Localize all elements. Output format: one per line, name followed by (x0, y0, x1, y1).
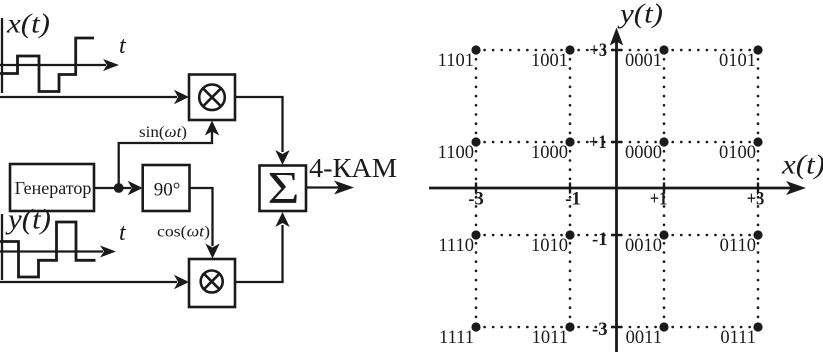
x(t) source time axis (0, 64, 106, 66)
cos wire: 90 box right, down into X2 (190, 188, 213, 246)
x(t) waveform (0, 38, 94, 92)
multiplier X2 circle (201, 271, 223, 293)
svg-text:1010: 1010 (531, 236, 568, 256)
point 0001 (659, 45, 668, 54)
svg-text:90°: 90° (154, 180, 181, 201)
svg-text:Σ: Σ (268, 162, 300, 213)
90 degree box (143, 165, 190, 211)
axis tick labels (468, 40, 764, 340)
svg-text:+3: +3 (747, 189, 765, 210)
svg-text:0110: 0110 (720, 236, 756, 256)
svg-text:+1: +1 (650, 189, 668, 210)
point 1001 (565, 45, 574, 54)
dotted column x=-3 (475, 50, 478, 327)
svg-text:+3: +3 (590, 40, 608, 61)
svg-text:-3: -3 (468, 189, 484, 210)
output arrowhead (334, 181, 354, 195)
svg-text:1001: 1001 (531, 51, 568, 71)
summator box (260, 166, 307, 212)
point 1100 (471, 137, 480, 146)
wire y(t) to multiplier X2 (0, 281, 177, 283)
point 1111 (471, 322, 480, 331)
multiplier X1 box (189, 75, 235, 121)
point 1011 (565, 322, 574, 331)
dotted row y=+3 (476, 49, 758, 52)
svg-text:x(t): x(t) (781, 150, 823, 180)
arrowhead into multiplier X2 (174, 275, 189, 289)
x axis ticks (475, 183, 477, 194)
arrowhead into multiplier X1 (174, 90, 189, 104)
point 0101 (753, 45, 762, 54)
x(t) source vertical axis (1, 18, 3, 93)
point 1101 (471, 45, 480, 54)
y(t) time axis arrowhead (100, 246, 116, 258)
point 1000 (565, 137, 574, 146)
point 1010 (565, 230, 574, 239)
svg-text:-1: -1 (565, 189, 581, 210)
svg-text:0100: 0100 (719, 143, 756, 163)
wire X1 to summator (235, 97, 283, 152)
output wire (306, 186, 341, 188)
point 0111 (753, 322, 762, 331)
svg-text:-1: -1 (592, 229, 608, 250)
point 0110 (753, 230, 762, 239)
dotted row y=+1 (476, 141, 758, 144)
svg-text:sin(ωt): sin(ωt) (139, 124, 187, 141)
svg-text:Генератор: Генератор (15, 178, 92, 198)
svg-text:cos(ωt): cos(ωt) (157, 224, 210, 241)
wire x(t) to multiplier X1 (0, 96, 177, 98)
svg-text:1011: 1011 (532, 328, 568, 348)
constellation points (471, 45, 762, 331)
dotted column x=+1 (663, 50, 666, 327)
x axis (429, 187, 791, 190)
point 0010 (659, 230, 668, 239)
x axis arrowhead (786, 181, 806, 195)
point 1110 (471, 230, 480, 239)
dotted column x=+3 (757, 50, 760, 327)
multiplier X2 box (189, 259, 235, 307)
svg-text:0101: 0101 (719, 51, 756, 71)
svg-text:0011: 0011 (626, 328, 662, 348)
svg-text:0001: 0001 (625, 51, 662, 71)
point 0100 (753, 137, 762, 146)
wire generator to 90 box (94, 187, 131, 189)
svg-text:y(t): y(t) (617, 0, 663, 29)
svg-text:1000: 1000 (531, 143, 568, 163)
svg-text:x(t): x(t) (6, 8, 50, 39)
svg-text:0010: 0010 (625, 236, 662, 256)
arrowhead into summator top (275, 150, 289, 165)
y axis ticks (611, 49, 622, 51)
x(t) time axis arrowhead (103, 59, 119, 71)
svg-text:+1: +1 (589, 132, 607, 153)
dotted column x=-1 (569, 50, 572, 327)
constellation point labels (438, 51, 756, 348)
svg-text:1100: 1100 (438, 143, 474, 163)
wire X2 to summator (235, 225, 283, 282)
y(t) source time axis (0, 250, 103, 252)
svg-text:0111: 0111 (720, 328, 756, 348)
arrowhead sin into X1 bottom (205, 121, 219, 136)
svg-text:1111: 1111 (439, 328, 474, 348)
svg-text:y(t): y(t) (5, 205, 51, 236)
junction dot (114, 183, 124, 193)
dotted row y=-1 (476, 234, 758, 237)
multiplier X1 circle (199, 85, 225, 111)
dotted row y=-3 (476, 326, 758, 329)
svg-text:1110: 1110 (438, 236, 474, 256)
arrowhead into summator bottom (275, 212, 289, 227)
svg-text:1101: 1101 (438, 51, 474, 71)
y axis arrowhead (610, 28, 623, 46)
generator box (10, 164, 94, 211)
multiplier X2 cross (204, 274, 220, 290)
multiplier X1 cross (203, 88, 221, 106)
svg-text:0000: 0000 (625, 143, 662, 163)
y axis (615, 40, 618, 352)
svg-text:-3: -3 (592, 319, 608, 340)
arrowhead cos into X2 top (205, 244, 219, 259)
svg-text:4-КАМ: 4-КАМ (309, 153, 397, 183)
y(t) source vertical axis (1, 214, 3, 280)
arrowhead into 90 box (128, 181, 143, 195)
y(t) waveform (0, 222, 96, 277)
dotted grid (476, 50, 758, 327)
point 0000 (659, 137, 668, 146)
point 0011 (659, 322, 668, 331)
sin wire: junction up, right, up into X1 (119, 128, 212, 188)
